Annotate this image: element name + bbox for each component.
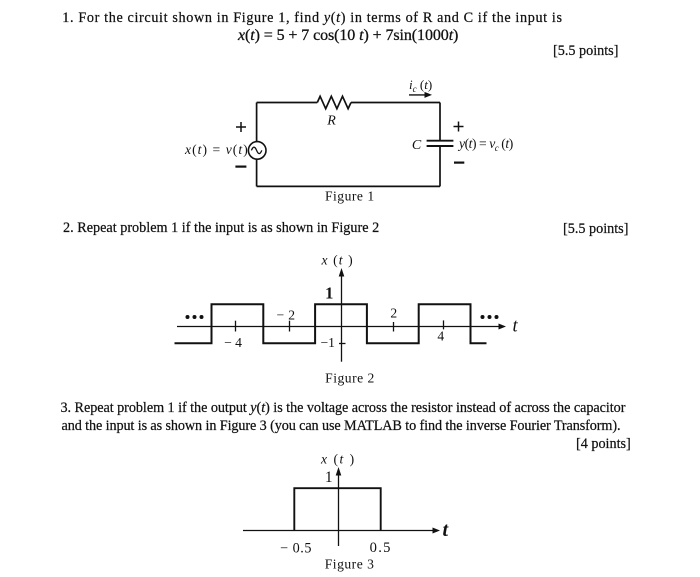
ellipsis right <box>481 315 499 319</box>
svg-text:x(t) = v(t): x(t) = v(t) <box>184 142 249 158</box>
wire: left vertical upper (source to top wire) <box>256 103 258 142</box>
svg-text:x (t ): x (t ) <box>320 452 356 468</box>
source + polarity <box>236 122 246 132</box>
svg-text:Figure 3: Figure 3 <box>325 557 375 572</box>
svg-text:t: t <box>443 519 450 541</box>
wire: top-right segment from resistor to capacitor branch <box>351 102 440 104</box>
source V1: sinusoidal voltage source x(t)=v(t) <box>248 142 266 160</box>
current arrow <box>409 92 432 98</box>
y axis <box>339 268 345 362</box>
svg-text:Figure 2: Figure 2 <box>325 371 375 386</box>
ellipsis left <box>186 315 204 319</box>
svg-text:ic (t): ic (t) <box>409 77 432 94</box>
Figure 1: RC circuit <box>180 70 520 205</box>
capacitor - polarity <box>454 162 464 164</box>
svg-text:− 2: − 2 <box>277 308 296 323</box>
y axis <box>336 467 342 546</box>
svg-text:−1: −1 <box>320 335 334 350</box>
waveform: periodic square wave <box>175 304 487 343</box>
t axis <box>243 528 440 534</box>
svg-text:t: t <box>513 317 519 337</box>
wire: bottom segment <box>257 185 440 187</box>
points 1 <box>553 44 618 59</box>
problem 2 text <box>63 221 379 236</box>
svg-text:2: 2 <box>390 305 397 320</box>
wire: right vertical lower (capacitor bottom plate to bottom wire) <box>439 146 441 186</box>
capacitor C plates <box>427 141 454 146</box>
problem 1 text <box>62 11 562 26</box>
tick -2 <box>289 321 291 332</box>
svg-text:− 0.5: − 0.5 <box>280 540 312 556</box>
equation <box>238 28 458 43</box>
svg-text:C: C <box>412 138 422 153</box>
wire: top-left segment from source node to resistor <box>257 102 318 104</box>
resistor R <box>317 96 351 108</box>
source - polarity <box>235 166 246 168</box>
t axis <box>177 324 506 330</box>
wire: left vertical lower (bottom wire to source) <box>256 160 258 187</box>
svg-text:y(t) = vc (t): y(t) = vc (t) <box>457 136 513 153</box>
Figure 3: rectangular pulse plot <box>230 450 460 577</box>
tick -1 on y axis <box>339 343 346 345</box>
capacitor + polarity <box>454 122 464 132</box>
tick 2 <box>393 322 395 332</box>
svg-text:1: 1 <box>325 283 333 302</box>
svg-text:1: 1 <box>325 469 333 486</box>
pulse waveform <box>294 488 380 531</box>
problem 3 text <box>61 401 626 416</box>
points 2 <box>563 222 628 237</box>
svg-text:R: R <box>326 114 336 129</box>
svg-text:x (t ): x (t ) <box>321 253 354 269</box>
Figure 2: square wave plot <box>160 248 530 390</box>
wire: right vertical upper (to capacitor top plate) <box>439 103 441 141</box>
svg-text:Figure 1: Figure 1 <box>325 188 375 203</box>
tick 4 <box>443 320 445 329</box>
tick -4 <box>235 321 237 332</box>
svg-text:− 4: − 4 <box>224 335 242 350</box>
points 3 <box>576 437 631 452</box>
svg-text:0.5: 0.5 <box>370 540 392 556</box>
svg-text:4: 4 <box>437 329 444 344</box>
